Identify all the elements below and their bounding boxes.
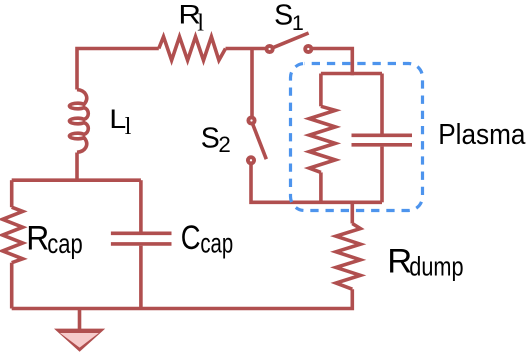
wire: R_dump bottom to ground bus bbox=[12, 289, 353, 308]
wire: plasma left branch lower bbox=[319, 172, 323, 202]
svg-text:1: 1 bbox=[292, 11, 304, 35]
wire: top-left loop from inductor top up and right to R_l bbox=[77, 49, 159, 90]
wire: S1 right contact to plasma box entry bbox=[312, 49, 353, 76]
switch S1 right contact bbox=[305, 46, 311, 52]
resistor R_cap bbox=[3, 207, 23, 263]
capacitor C_cap bottom plate bbox=[111, 242, 172, 246]
switch S2 blade bbox=[253, 124, 267, 160]
inductor L_l bbox=[69, 90, 88, 153]
wire: junction drop to S2 top contact bbox=[250, 49, 254, 118]
svg-text:Plasma: Plasma bbox=[438, 119, 525, 151]
wire: plasma left branch upper bbox=[319, 74, 323, 107]
wire: cap block right branch upper bbox=[139, 180, 143, 231]
svg-text:R: R bbox=[26, 220, 49, 258]
svg-text:S: S bbox=[201, 122, 220, 154]
wire: plasma top bus bbox=[321, 72, 382, 76]
switch S2 bottom contact bbox=[248, 157, 254, 163]
capacitor C_cap top plate bbox=[111, 232, 172, 236]
wire: cap block left branch lower bbox=[10, 263, 14, 309]
switch S1 blade bbox=[273, 33, 309, 48]
switch S1 left contact bbox=[267, 46, 273, 52]
svg-text:l: l bbox=[125, 113, 132, 140]
plasma dashed box bbox=[291, 64, 423, 211]
capacitor plasma bottom plate bbox=[352, 143, 413, 147]
wire: plasma right branch lower bbox=[380, 147, 384, 203]
wire: cap block right branch lower bbox=[139, 246, 143, 309]
svg-text:S: S bbox=[274, 0, 293, 32]
ground symbol inner fill bbox=[60, 333, 99, 348]
svg-text:2: 2 bbox=[218, 132, 230, 157]
wire: S2 bottom contact down then right to plasma bottom wire bbox=[251, 164, 382, 203]
resistor R_dump bbox=[336, 224, 360, 290]
svg-text:cap: cap bbox=[47, 228, 82, 259]
ground symbol triangle bbox=[54, 329, 105, 352]
svg-text:dump: dump bbox=[409, 251, 463, 281]
wire: inductor bottom to cap block top wire bbox=[75, 153, 79, 181]
wire: cap block top bus bbox=[12, 178, 141, 182]
svg-text:cap: cap bbox=[200, 227, 233, 258]
capacitor plasma top plate bbox=[352, 134, 413, 138]
wire: plasma exit down to R_dump bbox=[350, 202, 354, 223]
switch S2 top contact bbox=[248, 117, 254, 123]
resistor plasma (unlabeled) bbox=[309, 106, 335, 172]
wire: R_l to S1 left contact bbox=[226, 47, 267, 51]
wire: cap block left branch upper bbox=[10, 180, 14, 207]
svg-text:C: C bbox=[181, 219, 201, 257]
svg-text:l: l bbox=[197, 9, 204, 36]
wire: ground stem bbox=[78, 309, 82, 330]
resistor R_l bbox=[159, 37, 226, 61]
wire: plasma right branch upper bbox=[380, 74, 384, 134]
